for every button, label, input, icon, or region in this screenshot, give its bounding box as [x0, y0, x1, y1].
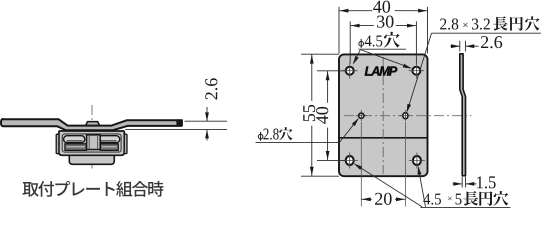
- side view left: vertical centerline: [91, 105, 93, 169]
- dimension 20: dimension line with arrows: [361, 197, 405, 201]
- side view left: mounting plate profile (arms and dished center): [1, 119, 182, 130]
- dimension 30 top: value text: [377, 16, 393, 28]
- side view left: lower rail band right: [100, 144, 118, 151]
- dimension 2.6 left view: extension lines: [125, 121, 227, 129]
- label phi 2.8 hole: leader underline and arrow to middle-left hole: [256, 118, 359, 142]
- dimension 2.6 right view: arrows and text: [450, 36, 502, 48]
- label phi 4.5 hole: text: [359, 32, 400, 48]
- front view: bottom-right hole 4.5x5 oblong: [409, 153, 425, 169]
- dimension 40 vertical: value text rotated: [316, 107, 328, 124]
- front view: middle-right hole 2.8x3.2 oblong: [400, 110, 411, 121]
- front view: vertical centerline: [382, 57, 384, 174]
- front view + side view: horizontal centerline through small holes: [344, 115, 472, 117]
- front view: plate bend line: [340, 137, 427, 139]
- side view left: inner frame of body: [62, 134, 121, 152]
- side view right: plate edge profile bent strip: [460, 54, 466, 176]
- dimension 40 top: value text: [373, 1, 390, 13]
- side view left: body side ear left: [56, 134, 59, 153]
- label 2.8x3.2 oblong hole: leader underline and arrow to middle-right hole: [407, 33, 541, 113]
- dimension 55 height: dimension line with arrows: [310, 54, 314, 176]
- label 4.5x5 oblong hole: leader underline and arrows to both bottom holes: [354, 164, 511, 208]
- dimension 55 height: value text rotated: [303, 105, 315, 121]
- dimension 1.5 plate thickness: extension lines: [462, 177, 465, 188]
- front view: top-left hole phi 4.5: [342, 63, 358, 79]
- dimension 1.5 plate thickness: arrows and text: [453, 176, 496, 188]
- dimension 30 top: dimension line with arrows: [350, 24, 416, 28]
- side view left: center post: [87, 135, 101, 150]
- front view: extension lines from middle holes down to 20-dim: [361, 122, 405, 207]
- front view: top-right hole phi 4.5: [409, 63, 425, 79]
- side view left: rivet bump on plate center: [85, 122, 100, 127]
- side view left: upper rail capsule left: [64, 136, 85, 143]
- label phi 4.5 hole: leader underline and arrows to both top holes: [353, 49, 412, 68]
- front view: bottom-left hole 4.5x5 oblong: [342, 153, 358, 169]
- dimension 40 vertical: dimension line with arrows: [326, 71, 330, 161]
- side view left: body side ear right: [124, 134, 127, 153]
- front view: middle-left hole phi 2.8: [356, 110, 367, 121]
- side view left: latch body outline: [59, 131, 124, 155]
- caption: mounting plate combined label: [23, 181, 164, 197]
- dimension 20: value text: [375, 193, 392, 205]
- dimension 2.6 right view: extension lines: [460, 41, 466, 52]
- label phi 2.8 hole: text: [258, 127, 292, 141]
- side view left: upper rail capsule right: [99, 136, 120, 143]
- side view left: plate right arm end cap: [176, 119, 183, 126]
- dimension 40 vertical: extension lines: [317, 71, 345, 161]
- dimension 30 top: extension lines: [350, 21, 416, 63]
- front view: mounting plate face (40x55): [339, 54, 428, 176]
- label 4.5x5 oblong hole: text: [423, 191, 508, 206]
- dimension 40 top: dimension line with arrows: [339, 9, 428, 13]
- dimension 40 top: extension lines: [339, 7, 428, 54]
- dimension 2.6 left view: arrows: [205, 107, 209, 141]
- side view left: lower rail band left: [65, 144, 87, 151]
- dimension 2.6 left view: value text rotated: [205, 78, 217, 99]
- dimension 55 height: extension lines: [301, 54, 339, 176]
- front view: LAMP logo: [365, 66, 398, 75]
- label 2.8x3.2 oblong hole: text: [440, 16, 539, 30]
- side view left: latch foot: [69, 155, 114, 164]
